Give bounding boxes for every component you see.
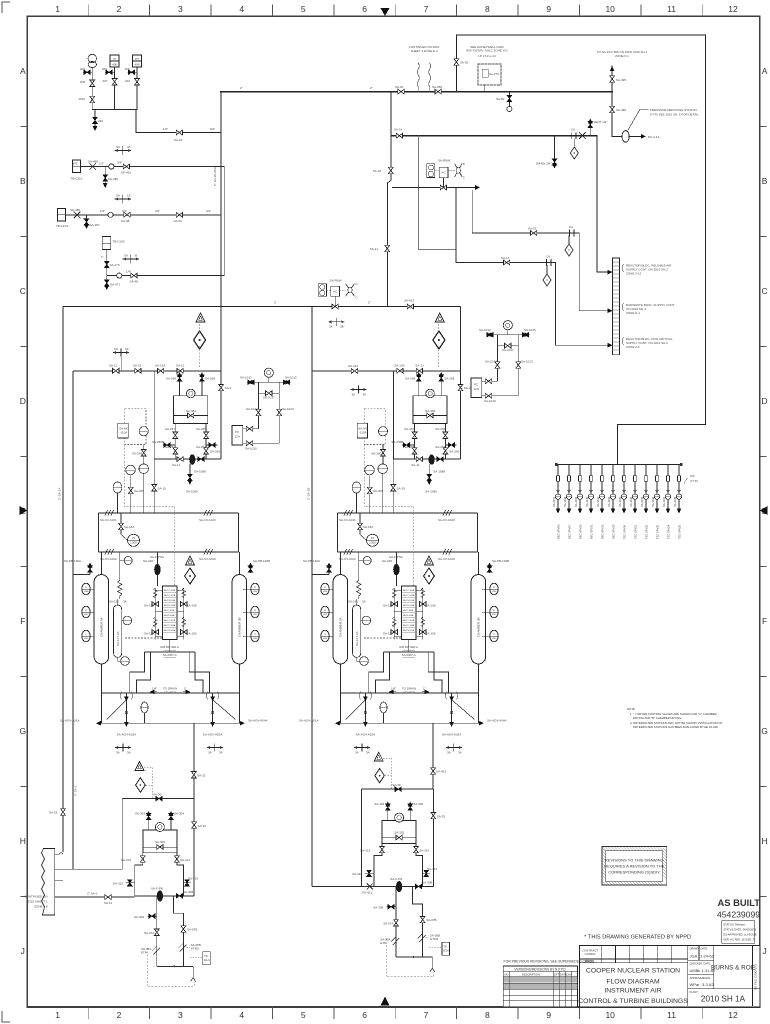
svg-text:DESCRIPTION: DESCRIPTION [522,972,540,976]
svg-text:209: 209 [102,67,107,71]
wire drop to half-inch line [136,92,221,133]
top numbers [55,4,738,14]
svg-text:STATUS: Release: STATUS: Release [723,923,745,927]
svg-text:2": 2" [274,301,277,305]
svg-text:G: G [19,726,26,736]
svg-text:VER: AC REV: 18 SIZE: F: VER: AC REV: 18 SIZE: F [723,938,754,942]
svg-text:H: H [762,836,768,846]
svg-text:REC-SPV20: REC-SPV20 [579,524,583,539]
svg-text:3/4": 3/4" [210,127,215,131]
svg-text:1A: 1A [127,194,131,198]
wire SA-12 feeder line [73,370,154,372]
svg-text:VERSIONS/REVISIONS BY N.P.P.D.: VERSIONS/REVISIONS BY N.P.P.D. [514,967,566,971]
train A compressor cluster [113,762,210,987]
svg-text:DRAIN 3/4": DRAIN 3/4" [536,162,551,166]
svg-text:REC-SPV23: REC-SPV23 [612,524,616,539]
svg-text:LP LT-2-L-14: LP LT-2-L-14 [478,54,496,58]
svg-text:SA-14: SA-14 [394,128,403,132]
y=187.5 line [392,187,478,189]
top small cells row [580,959,688,963]
svg-text:SA-1044: SA-1044 [629,496,633,507]
svg-text:NE FILE C0006271: NE FILE C0006271 [754,964,758,990]
svg-text:REQUIRES A REVISION TO THE: REQUIRES A REVISION TO THE [604,864,664,869]
svg-text:9: 9 [546,1010,551,1020]
svg-text:202: 202 [125,79,130,83]
svg-text:7: 7 [424,1010,429,1020]
wire right rail upper x=460.4 [459,307,461,371]
right cells [688,960,760,988]
svg-text:240: 240 [98,119,103,123]
svg-text:SA-16: SA-16 [373,169,382,173]
svg-text:DRAWN: DRAWN [690,947,700,951]
valve SA-258 [435,89,441,94]
train A regulator loop PC-12A [232,368,297,451]
wire flag to main line [55,896,135,898]
svg-text:TB-C109: TB-C109 [113,240,125,244]
svg-text:SA: SA [116,194,120,198]
gray zone band x=418.4 [418,136,456,250]
wire long vertical x=221.2 [220,133,222,307]
svg-text:B: B [762,176,768,186]
svg-text:TEC-SPV20: TEC-SPV20 [623,524,627,539]
svg-text:JGA: JGA [690,954,698,959]
train B heater/control cluster [357,313,471,507]
svg-text:209: 209 [80,67,85,71]
svg-text:CA: CA [546,255,550,259]
svg-text:SA-20: SA-20 [395,85,404,89]
SA-17 line y=262.5 [456,188,611,346]
svg-text:SA-432: SA-432 [436,770,446,774]
svg-text:SA: SA [124,254,128,258]
svg-text:3A: 3A [352,393,356,397]
svg-text:2": 2" [370,86,373,90]
svg-text:2": 2" [368,301,371,305]
svg-text:2"-SA-1A: 2"-SA-1A [58,488,62,500]
svg-text:10: 10 [605,4,615,14]
svg-text:CONTROL & TURBINE BUILDINGS: CONTROL & TURBINE BUILDINGS [578,998,688,1005]
svg-text:SA-1046: SA-1046 [651,496,655,507]
notes block [627,707,723,729]
svg-text:ZONE D-1: ZONE D-1 [626,311,640,315]
svg-text:2: 2 [117,4,122,14]
svg-text:REC-SPV07: REC-SPV07 [568,524,572,539]
corner marks [2,2,10,13]
valve SA-RNW2 drop [332,304,338,309]
svg-text:DRYING AND "B" CHAMBER DRYING.: DRYING AND "B" CHAMBER DRYING. [633,716,682,720]
svg-text:REC-SPV05: REC-SPV05 [557,524,561,539]
wire right rail upper x=221.1 [220,307,222,371]
train B compressor cluster [352,752,449,977]
svg-text:208: 208 [80,80,85,84]
svg-text:B: B [20,176,26,186]
svg-text:1": 1" [101,255,104,259]
svg-text:5: 5 [301,4,306,14]
svg-text:SA-09: SA-09 [174,219,183,223]
svg-text:209: 209 [125,67,130,71]
svg-text:SA-412: SA-412 [348,364,358,368]
svg-text:SA-487: SA-487 [90,223,100,227]
svg-text:G: G [761,726,768,736]
svg-text:2010 SHEET 1: 2010 SHEET 1 [28,900,48,904]
wire left leg down [361,789,363,886]
svg-text:PRESSURE REDUCING STATION: PRESSURE REDUCING STATION [650,108,697,112]
svg-text:TEC-SPV23: TEC-SPV23 [656,524,660,539]
train A heater/control cluster [118,313,232,507]
svg-text:11: 11 [667,1010,676,1020]
svg-text:WPar: WPar [690,982,701,987]
wire drop from purge header [432,723,434,789]
svg-text:PC-2-1A: PC-2-1A [648,135,660,139]
drain stub w valve 240 [94,110,96,128]
svg-text:* THIS DRAWING GENERATED BY NP: * THIS DRAWING GENERATED BY NPPD [584,935,691,941]
pressure reducing station circle [612,135,622,137]
svg-text:2: 2 [117,1010,122,1020]
svg-text:4: 4 [239,1010,244,1020]
svg-text:D: D [356,282,359,286]
svg-text:DATE: DATE [704,976,711,980]
svg-text:SA-1041: SA-1041 [596,496,600,507]
svg-text:2"-SA-1B: 2"-SA-1B [307,488,311,500]
svg-text:SA-1042: SA-1042 [607,496,611,507]
svg-text:SA-11: SA-11 [104,901,112,905]
svg-text:SA-50: SA-50 [496,97,505,101]
svg-text:TEC-SPV25: TEC-SPV25 [678,524,682,539]
svg-text:2"-SA-18-2010: 2"-SA-18-2010 [213,166,217,186]
svg-text:CONTINUED ON: CONTINUED ON [24,895,47,899]
train B regulator loop PC-12B [471,321,536,404]
stub SA-50 [508,92,510,106]
svg-text:SA-RNW: SA-RNW [330,279,342,283]
svg-text:3/4": 3/4" [690,474,695,478]
svg-text:AC: AC [333,290,338,294]
svg-text:SA-02: SA-02 [460,61,469,65]
honeywell dashed box SA-270 [478,64,501,85]
svg-text:3-3-62: 3-3-62 [702,982,714,987]
svg-text:805-7007(P), SHLC ZONE H-2: 805-7007(P), SHLC ZONE H-2 [466,49,508,53]
svg-text:PT: PT [135,57,139,61]
svg-text:TB-C110: TB-C110 [71,177,83,181]
svg-text:SA-1043: SA-1043 [618,496,622,507]
svg-text:(TYP) SEE 2010 SH. 5 FOR DETAI: (TYP) SEE 2010 SH. 5 FOR DETAIL [650,113,699,117]
svg-text:SA-421: SA-421 [362,891,372,895]
svg-text:J: J [762,946,766,956]
svg-text:SA-32: SA-32 [197,774,206,778]
svg-text:INSTRUMENT AIR: INSTRUMENT AIR [604,988,661,995]
wire verticals to header [92,67,137,110]
svg-text:SA-471: SA-471 [110,283,120,287]
svg-text:SA-413: SA-413 [404,299,414,303]
svg-text:1: 1 [55,1010,60,1020]
edge arrows [381,8,390,16]
drain stub [554,136,556,165]
svg-text:SA-41: SA-41 [370,247,379,251]
continuation flag [24,849,54,915]
B row cluster 3 y=275.6 [101,167,224,291]
valve SA-02 [454,59,459,65]
svg-text:NO: NO [505,972,509,976]
svg-text:(TYP): (TYP) [690,479,698,483]
wall penetration hatched bar [608,258,676,355]
svg-text:8: 8 [485,4,490,14]
svg-text:408: 408 [134,63,139,67]
svg-text:3/4": 3/4" [122,209,127,213]
wire header [92,109,137,111]
svg-text:FOR PREVIOUS REVISIONS, SEE SU: FOR PREVIOUS REVISIONS, SEE SUPERSEDED C… [504,960,596,964]
svg-text:SA-48: SA-48 [130,280,139,284]
svg-text:NAMES: NAMES [585,952,596,956]
svg-text:REC-SPV21: REC-SPV21 [590,524,594,539]
svg-text:SA-1040: SA-1040 [585,496,589,507]
svg-text:SA: SA [114,347,118,351]
svg-text:SA-486: SA-486 [108,177,118,181]
instrument PI [88,54,96,67]
svg-text:3B: 3B [340,325,344,329]
SA-RNW cluster 2 [318,279,358,307]
svg-text:3A: 3A [329,325,333,329]
svg-text:VENT 1/2": VENT 1/2" [594,120,608,124]
svg-text:TEC-SPV22: TEC-SPV22 [645,524,649,539]
svg-text:TB-C103: TB-C103 [56,224,68,228]
wire drop from purge header [193,723,195,798]
svg-text:1/4": 1/4" [126,270,131,274]
svg-text:AC: AC [442,171,447,175]
svg-text:D: D [762,396,768,406]
svg-text:DATE: DATE [704,962,711,966]
svg-text:H: H [20,836,26,846]
SA-RNW cluster 1 [427,159,466,188]
wire main line west segment [312,885,374,887]
svg-text:1/2": 1/2" [99,162,104,166]
train B dryer/chamber section [299,459,509,754]
svg-text:12: 12 [728,4,738,14]
svg-text:SA-1047: SA-1047 [662,496,666,507]
SA-19 line y=233 [472,191,611,311]
svg-text:J: J [21,946,25,956]
wire SA-412 feeder [312,370,394,372]
svg-text:PI: PI [113,57,116,61]
svg-text:AS BUILT: AS BUILT [717,897,760,908]
left letters [19,66,26,956]
svg-text:SA-18: SA-18 [49,811,58,815]
svg-text:APPROVED: APPROVED [690,976,705,980]
svg-text:SA-426: SA-426 [121,171,131,175]
svg-text:C: C [762,286,768,296]
svg-text:DS APPROVED: LLADUGE: DS APPROVED: LLADUGE [723,933,757,937]
svg-text:SA-470: SA-470 [110,263,120,267]
svg-text:ZONE 3-13: ZONE 3-13 [626,272,642,276]
svg-text:SA-485: SA-485 [70,208,80,212]
svg-text:454239099: 454239099 [717,910,760,920]
svg-text:F: F [20,616,25,626]
svg-text:DATE: DATE [701,947,708,951]
svg-text:10: 10 [605,1010,615,1020]
wire top box line y=35 [457,35,705,424]
svg-text:C: C [20,286,26,296]
stub valves [84,71,138,73]
svg-text:12: 12 [728,1010,738,1020]
svg-text:SA-19: SA-19 [528,227,537,231]
wire purge stub connector [73,572,90,575]
continuation squiggles [417,63,430,92]
svg-text:TEC-SPV24: TEC-SPV24 [667,524,671,539]
distribution manifold [555,424,706,484]
svg-text:CHK: CHK [567,972,573,976]
node x=612 riser [611,66,613,136]
svg-text:ZONE 2-5: ZONE 2-5 [626,345,640,349]
svg-text:TEC-SPV21: TEC-SPV21 [634,524,638,539]
svg-text:B: B [135,254,137,258]
svg-text:1: 1 [55,4,60,14]
valve SA-413 [407,304,413,309]
bottom numbers [55,1010,738,1020]
svg-text:7: 7 [424,4,429,14]
svg-text:2" SA-1: 2" SA-1 [74,785,78,796]
svg-text:REVISIONS TO THIS DRAWING: REVISIONS TO THIS DRAWING [605,858,664,863]
svg-text:3/4": 3/4" [117,161,122,165]
right letters [761,66,768,956]
cross stub below [328,318,344,326]
svg-text:SA-17: SA-17 [501,256,510,260]
svg-text:BURNS & ROE: BURNS & ROE [711,965,755,972]
manifold drops x12 [552,465,682,540]
svg-text:D: D [463,162,466,166]
svg-text:4: 4 [239,4,244,14]
svg-text:SA-496: SA-496 [616,108,626,112]
svg-text:3: 3 [178,1010,183,1020]
svg-text:C: C [356,296,359,300]
svg-text:1/2": 1/2" [100,209,105,213]
B row cluster 2 y=214.8 [56,194,221,230]
svg-text:3A: 3A [127,145,131,149]
wire purge stub connector B [312,572,329,575]
vent stub [589,121,591,136]
svg-text:REC-SPV22: REC-SPV22 [601,524,605,539]
svg-text:9: 9 [546,4,551,14]
svg-text:406: 406 [112,63,117,67]
svg-text:PT: PT [73,161,79,166]
svg-text:STATUS DATE: 06/02/2018: STATUS DATE: 06/02/2018 [723,928,756,932]
svg-text:PLANT: PLANT [690,990,699,994]
instrument PT 408 [133,55,142,67]
svg-text:COOPER NUCLEAR STATION: COOPER NUCLEAR STATION [586,968,680,975]
train A dryer/chamber section [60,459,270,754]
svg-text:SA: SA [116,145,120,149]
svg-text:1910: 1910 [78,97,85,101]
svg-text:2" SA-1: 2" SA-1 [87,892,98,896]
svg-text:DRYER/FILTER STATIONS HAS BEEN: DRYER/FILTER STATIONS HAS BEEN EVALUATED… [633,725,719,729]
svg-text:D: D [20,396,26,406]
svg-text:A: A [762,66,768,76]
y=136 branch line [391,92,612,273]
svg-text:SA-258: SA-258 [432,85,442,89]
svg-text:6: 6 [362,4,367,14]
svg-text:2010 SH 1A: 2010 SH 1A [701,995,746,1004]
svg-text:CA: CA [569,225,573,229]
svg-text:SA-20: SA-20 [174,138,183,142]
svg-text:CHECKED: CHECKED [690,962,703,966]
wire main 2in header y=91.6 [221,91,612,93]
svg-text:A: A [20,66,26,76]
svg-text:SA-1048: SA-1048 [673,496,677,507]
svg-text:3/4": 3/4" [155,209,160,213]
svg-text:SA-12: SA-12 [109,364,118,368]
svg-text:SA-1045: SA-1045 [640,496,644,507]
svg-text:CA: CA [571,128,575,132]
revision cloud note [602,847,667,886]
svg-text:1-24-62: 1-24-62 [700,954,715,959]
svg-text:3A: 3A [125,347,129,351]
svg-text:SA-15: SA-15 [133,364,142,368]
svg-text:11: 11 [667,4,676,14]
svg-text:SA-08: SA-08 [121,219,130,223]
svg-text:6: 6 [362,1010,367,1020]
svg-text:SA-495: SA-495 [616,78,626,82]
svg-text:8: 8 [485,1010,490,1020]
valve SA-201 on y=91.6 [398,89,404,94]
svg-text:5: 5 [301,1010,306,1020]
svg-text:C: C [463,176,466,180]
B row cluster 1 y=166.5 [71,145,225,188]
svg-text:ZONE J-8: ZONE J-8 [34,905,48,909]
vertical x=391 lower with jog [387,136,391,307]
svg-text:1/2": 1/2" [163,127,168,131]
svg-text:3: 3 [178,4,183,14]
svg-text:SHEET 1 ZONE E-4: SHEET 1 ZONE E-4 [410,49,437,53]
svg-text:DFT: DFT [554,972,559,976]
main vertical divider [687,946,689,1007]
revision table [503,960,595,1007]
svg-text:SA-1039: SA-1039 [574,496,578,507]
svg-text:FLOW DIAGRAM: FLOW DIAGRAM [606,979,660,986]
svg-text:SA-1037: SA-1037 [552,496,556,507]
wire leg from cluster to flag header [55,799,123,870]
svg-text:2": 2" [240,86,243,90]
svg-text:SA-1038: SA-1038 [563,496,567,507]
svg-text:3/4": 3/4" [206,209,211,213]
svg-text:3A: 3A [363,393,367,397]
svg-text:F: F [762,616,767,626]
wire [63,306,460,308]
svg-text:NOTE:: NOTE: [627,707,636,711]
svg-text:SA-RNW: SA-RNW [438,159,450,163]
svg-text:207: 207 [102,79,107,83]
wire left rail x=312 [311,307,313,887]
svg-text:CORRESPONDING (S)SDIY.: CORRESPONDING (S)SDIY. [608,870,660,875]
svg-text:SA-270: SA-270 [489,72,499,76]
wire vertical x=456.4 [455,35,457,92]
wire flag stubs [55,853,63,881]
svg-text:ZONE F-1: ZONE F-1 [615,54,629,58]
wire left rail x=63 [63,307,73,870]
stamps [584,897,760,943]
svg-text:SA-488: SA-488 [88,160,98,164]
instrument PI 406 [110,55,119,67]
